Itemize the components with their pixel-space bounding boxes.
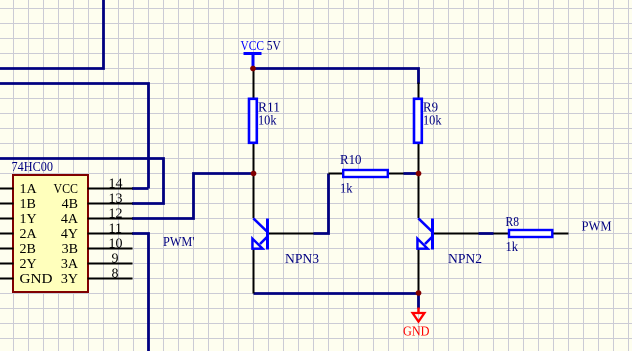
wire pin 11 down off-sheet (net PWM')	[132, 234, 149, 351]
svg-text:4B: 4B	[62, 197, 78, 212]
svg-text:12: 12	[109, 207, 123, 222]
resistor R10 body	[343, 170, 388, 177]
wire left edge row 158.5 to pin 13	[0, 159, 164, 204]
pin 14 (VCC)	[88, 188, 133, 190]
svg-text:74HC00: 74HC00	[12, 160, 54, 175]
svg-text:2Y: 2Y	[20, 257, 37, 272]
pin 1 (1A)	[0, 188, 14, 190]
pin 10	[88, 248, 133, 250]
svg-text:VCC: VCC	[54, 182, 79, 197]
resistor R11 pin 2	[253, 144, 255, 174]
pin 5 (2B)	[0, 248, 14, 250]
wire pin 12 to node A	[132, 174, 254, 219]
resistor R8 pin 2	[553, 233, 569, 235]
wire left edge row 83.5 down to pin 14	[0, 84, 149, 189]
svg-text:2B: 2B	[20, 242, 36, 257]
svg-text:10k: 10k	[258, 114, 277, 129]
svg-text:4A: 4A	[61, 212, 79, 227]
svg-text:13: 13	[109, 192, 123, 207]
svg-text:11: 11	[109, 222, 122, 237]
svg-text:PWM': PWM'	[163, 235, 195, 250]
wire R10 right to node B	[404, 172, 419, 175]
wire emitter rail	[254, 292, 419, 295]
pin labels left column	[20, 182, 53, 287]
svg-text:3A: 3A	[61, 257, 79, 272]
wire NPN3 base up to R10 left	[314, 174, 329, 234]
pin 4 (2A)	[0, 233, 14, 235]
transistor NPN3	[252, 174, 313, 294]
power port VCC 5V	[241, 39, 281, 69]
svg-text:3Y: 3Y	[61, 272, 78, 287]
wire VCC rail to R9	[254, 69, 419, 85]
pin 13	[88, 203, 133, 205]
pin 11	[88, 233, 133, 235]
pin 8	[88, 278, 133, 280]
resistor R10 pin 1	[329, 173, 343, 175]
svg-text:NPN3: NPN3	[285, 252, 319, 267]
svg-text:8: 8	[112, 267, 119, 282]
svg-text:1A: 1A	[20, 182, 38, 197]
junction node A (R11/R10 left rail)	[251, 171, 257, 177]
svg-text:2A: 2A	[20, 227, 38, 242]
resistor R9 pin 2	[418, 144, 420, 174]
svg-text:NPN2: NPN2	[448, 252, 482, 267]
wire NPN2 base to R8	[479, 232, 494, 235]
IC 74HC00 body	[13, 175, 88, 292]
svg-text:1Y: 1Y	[20, 212, 37, 227]
pin 2 (1B)	[0, 203, 14, 205]
pin numbers 14-8	[109, 177, 123, 282]
resistor R10 pin 2	[389, 173, 404, 175]
svg-text:1k: 1k	[340, 182, 353, 197]
svg-text:VCC: VCC	[241, 39, 265, 54]
svg-text:1B: 1B	[20, 197, 36, 212]
svg-text:10k: 10k	[423, 114, 442, 129]
svg-text:4Y: 4Y	[61, 227, 78, 242]
svg-text:9: 9	[112, 252, 119, 267]
svg-text:1k: 1k	[506, 240, 519, 255]
svg-text:PWM: PWM	[582, 220, 612, 235]
resistor R11 body	[249, 99, 257, 143]
svg-text:GND: GND	[403, 325, 430, 340]
svg-text:R8: R8	[506, 215, 520, 230]
svg-text:GND: GND	[20, 272, 53, 287]
resistor R11 pin 1	[253, 69, 255, 98]
pin 7 (GND)	[0, 278, 14, 280]
transistor NPN2	[417, 174, 478, 294]
pin 6 (2Y)	[0, 263, 14, 265]
pin 3 (1Y)	[0, 218, 14, 220]
junction node emitter rail / GND	[416, 290, 422, 296]
resistor R8 body	[509, 230, 552, 237]
junction node VCC	[250, 66, 256, 72]
svg-text:5V: 5V	[267, 39, 281, 54]
svg-text:3B: 3B	[62, 242, 78, 257]
svg-text:10: 10	[109, 237, 123, 252]
ground symbol	[403, 308, 430, 340]
wire top-left vertical to left edge	[0, 0, 104, 69]
resistor R9 pin 1	[418, 83, 420, 98]
resistor R8 pin 1	[494, 233, 509, 235]
pin 12	[88, 218, 133, 220]
wire pin 14 stub	[132, 187, 149, 190]
pin labels right column	[54, 182, 79, 287]
junction node B (R9/R10 right)	[416, 171, 422, 177]
svg-text:R10: R10	[340, 153, 362, 168]
wire GND stub	[417, 294, 420, 309]
resistor R9 body	[414, 99, 422, 143]
pin 9	[88, 263, 133, 265]
svg-text:14: 14	[109, 177, 123, 192]
